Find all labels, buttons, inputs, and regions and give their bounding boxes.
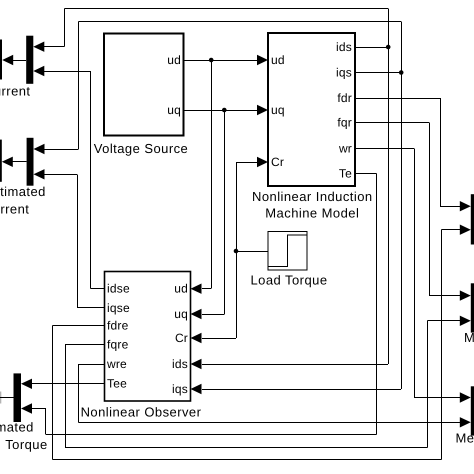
svg-text:M: M	[464, 330, 474, 345]
arrowhead scope Estimated Current	[2, 157, 13, 167]
junction dot Cr	[234, 249, 239, 254]
svg-text:Machine Model: Machine Model	[265, 206, 359, 221]
wire mux Estimated Current output to scope	[10, 161, 27, 163]
svg-text:fqr: fqr	[337, 116, 352, 130]
svg-text:Me: Me	[456, 431, 474, 446]
wire iqs: machine to mux Estimated Current and observer	[44, 22, 402, 390]
wire Tee: observer to mux Estimated Torque input 1	[31, 383, 105, 385]
wire fqre: observer to mux B input 2	[65, 321, 461, 448]
arrowhead mux A input 2	[460, 225, 471, 235]
wire fdr: machine to mux A input 1	[355, 98, 461, 207]
scope sliver Estimated Torque (left edge, faint)	[0, 392, 1, 404]
svg-text:uq: uq	[271, 103, 285, 117]
svg-text:iqs: iqs	[336, 66, 352, 80]
svg-text:Current: Current	[0, 84, 31, 99]
wire ud: VS to machine, tap down to observer	[184, 60, 259, 289]
svg-text:iqs: iqs	[172, 382, 188, 396]
wire mux Current output to scope	[12, 60, 26, 62]
svg-text:Current: Current	[0, 201, 29, 216]
junction dot ud	[209, 58, 214, 63]
svg-text:uq: uq	[174, 307, 188, 321]
svg-text:ids: ids	[172, 357, 188, 371]
mux C (speed, right edge)	[471, 386, 474, 435]
wire idse: observer to mux Current input 2	[44, 71, 105, 289]
arrowhead mux Estimated Current input 2	[34, 169, 45, 179]
scope sliver Estimated Current (left edge)	[0, 140, 2, 182]
svg-text:Estimated: Estimated	[0, 420, 34, 435]
svg-text:fqre: fqre	[107, 338, 129, 352]
block Load Torque (step source)	[251, 232, 328, 288]
svg-text:ud: ud	[167, 53, 181, 67]
svg-text:idse: idse	[107, 282, 130, 296]
arrowhead mux Estimated Current input 1	[34, 144, 45, 154]
arrowhead machine Cr	[257, 157, 268, 167]
mux A (flux d, right edge)	[471, 194, 474, 244]
svg-text:Nonlinear Observer: Nonlinear Observer	[81, 405, 202, 420]
svg-text:ids: ids	[336, 40, 352, 54]
svg-text:iqse: iqse	[107, 301, 130, 315]
arrowhead mux C input 1	[460, 392, 471, 402]
svg-text:ud: ud	[174, 282, 188, 296]
arrowhead machine ud	[257, 55, 268, 65]
scope sliver Current (left edge)	[0, 40, 2, 80]
svg-text:fdre: fdre	[107, 319, 129, 333]
arrowhead mux Estimated Torque input 2	[21, 403, 32, 413]
svg-text:Cr: Cr	[175, 331, 188, 345]
mux Current	[26, 36, 33, 84]
wire Cr: Load Torque to machine Cr and observer Cr	[202, 162, 268, 339]
wire fdre: observer to mux A input 2	[52, 230, 461, 460]
junction dot ids	[386, 45, 391, 50]
svg-text:Load Torque: Load Torque	[251, 273, 328, 288]
arrowhead observer iqs	[191, 384, 202, 394]
wire ids: machine to mux Current and observer	[44, 9, 389, 365]
wire wr: machine to mux C input 1	[355, 148, 461, 397]
arrowhead observer ids	[191, 359, 202, 369]
svg-text:Te: Te	[339, 167, 352, 181]
svg-text:Voltage Source: Voltage Source	[94, 141, 188, 156]
junction dot uq	[222, 108, 227, 113]
block Voltage Source	[94, 34, 188, 157]
arrowhead observer uq	[191, 309, 202, 319]
arrowhead mux B input 1	[460, 290, 471, 300]
arrowhead mux B input 2	[460, 316, 471, 326]
svg-text:Tee: Tee	[107, 377, 127, 391]
arrowhead mux Current input 1	[33, 42, 44, 52]
wire iqse: observer to mux Estimated Current input 2	[44, 174, 105, 307]
wire fqr: machine to mux B input 1	[355, 123, 461, 296]
svg-text:Torque: Torque	[5, 437, 47, 452]
mux Estimated Current	[27, 138, 34, 186]
wire Te: machine to mux Estimated Torque input 2	[31, 174, 377, 435]
svg-text:ud: ud	[271, 53, 285, 67]
arrowhead mux A input 1	[460, 201, 471, 211]
arrowhead machine uq	[257, 105, 268, 115]
mux B (flux q, right edge)	[471, 283, 474, 332]
svg-text:Cr: Cr	[271, 155, 284, 169]
wire wre: observer to mux C input 2	[79, 364, 462, 422]
wire mux Estimated Torque output to scope	[0, 397, 14, 399]
wire uq: VS to machine, tap down to observer	[184, 110, 259, 315]
arrowhead mux Current input 2	[33, 66, 44, 76]
svg-text:Nonlinear Induction: Nonlinear Induction	[252, 189, 373, 204]
mux Estimated Torque	[14, 373, 22, 422]
svg-text:fdr: fdr	[337, 91, 352, 105]
arrowhead scope Current	[2, 55, 13, 65]
svg-text:uq: uq	[167, 103, 181, 117]
block Nonlinear Observer	[81, 272, 202, 420]
arrowhead observer Cr	[191, 333, 202, 343]
svg-text:wre: wre	[106, 357, 127, 371]
arrowhead mux Estimated Torque input 1	[21, 379, 32, 389]
svg-text:wr: wr	[338, 141, 352, 155]
arrowhead observer ud	[191, 284, 202, 294]
arrowhead mux C input 2	[460, 417, 471, 427]
block Nonlinear Induction Machine Model	[252, 33, 373, 221]
svg-text:Estimated: Estimated	[0, 184, 46, 199]
junction dot iqs	[399, 70, 404, 75]
